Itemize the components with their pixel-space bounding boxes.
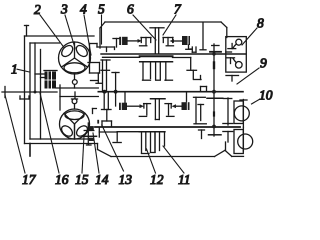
row3 clutch drum bbox=[151, 99, 166, 120]
gear column x214 main bbox=[207, 44, 223, 136]
svg-text:6: 6 bbox=[127, 2, 134, 17]
row1 clutch drum bbox=[150, 28, 164, 53]
lower clutch cluster right of converter bbox=[93, 92, 112, 124]
svg-text:11: 11 bbox=[178, 172, 191, 187]
lower converter stem bbox=[72, 92, 78, 109]
svg-text:14: 14 bbox=[95, 172, 109, 187]
svg-text:7: 7 bbox=[174, 2, 182, 17]
upper clutch cluster right of converter bbox=[97, 44, 115, 52]
row4 clutch under shaft C bbox=[139, 132, 165, 154]
svg-text:17: 17 bbox=[22, 172, 37, 187]
label 6 bbox=[127, 2, 156, 41]
label 16 bbox=[40, 93, 69, 187]
label 5 bbox=[98, 2, 105, 45]
left housing inner lines bbox=[30, 43, 97, 156]
right housing top bbox=[100, 22, 227, 48]
shaft B centerline bbox=[101, 53, 246, 55]
gear T at 116 bbox=[113, 39, 121, 48]
row3 clutch combs bbox=[139, 104, 174, 117]
shaft wall B bbox=[34, 43, 36, 92]
pump gear (black) bbox=[35, 71, 57, 89]
label 2 bbox=[34, 2, 64, 48]
bearing shell lines around input shaft bbox=[56, 85, 98, 110]
I-gear at 115.6 bbox=[112, 73, 119, 107]
label 13 bbox=[102, 125, 132, 187]
wheel assembly lower bbox=[223, 127, 253, 153]
label 7 bbox=[163, 2, 182, 36]
lower converter output column bbox=[84, 123, 118, 145]
svg-text:16: 16 bbox=[55, 172, 69, 187]
wheel assembly upper bbox=[223, 98, 249, 127]
row1 clutch piston left bbox=[119, 37, 142, 45]
gear T at 201 below shaft C bbox=[199, 130, 205, 139]
torque converter upper bbox=[59, 42, 91, 74]
svg-text:5: 5 bbox=[98, 2, 105, 17]
row3 clutch piston left bbox=[119, 103, 144, 110]
gear post x203 from housing bbox=[200, 23, 206, 50]
label 17 bbox=[5, 95, 37, 187]
small bracket above main line bbox=[201, 87, 207, 92]
svg-text:13: 13 bbox=[119, 172, 133, 187]
gear T below shaft C at 117 bbox=[113, 132, 139, 143]
main centerline bbox=[98, 91, 243, 93]
shaft C centerline bbox=[95, 126, 240, 128]
upper bevel symbol bbox=[228, 39, 242, 48]
input shaft bbox=[2, 87, 57, 100]
label 10 bbox=[252, 88, 273, 105]
label 11 bbox=[163, 146, 191, 187]
left housing outer wall bbox=[25, 26, 98, 144]
bracket under shaft B left bbox=[88, 44, 100, 74]
svg-text:9: 9 bbox=[260, 56, 267, 71]
gear T x193 below B bbox=[187, 70, 201, 79]
label 4 bbox=[80, 2, 91, 56]
svg-text:8: 8 bbox=[257, 16, 264, 31]
right housing bottom bbox=[98, 142, 244, 157]
shaft wall A bbox=[29, 43, 31, 139]
label 9 bbox=[237, 56, 267, 85]
label 3 bbox=[60, 2, 75, 49]
upper converter stem bbox=[72, 74, 77, 88]
svg-text:4: 4 bbox=[80, 2, 87, 17]
svg-text:12: 12 bbox=[150, 172, 164, 187]
svg-text:3: 3 bbox=[60, 2, 68, 17]
lower bevel symbol bbox=[227, 58, 243, 68]
I-gear with T at 196 below main line bbox=[194, 97, 207, 124]
right gear box bbox=[226, 37, 247, 73]
gear below box bbox=[226, 76, 239, 82]
label 15 bbox=[75, 136, 89, 187]
row1 clutch piston right bbox=[170, 36, 192, 49]
label 12 bbox=[147, 149, 164, 187]
housing posts for pistons bbox=[125, 92, 187, 104]
row3 clutch piston right bbox=[172, 102, 190, 110]
turbine link upper bbox=[91, 73, 103, 83]
torque converter lower bbox=[60, 109, 90, 139]
row1 clutch combs bbox=[140, 38, 174, 46]
label 8 bbox=[242, 16, 264, 46]
vertical pair to center bbox=[101, 60, 110, 94]
svg-text:10: 10 bbox=[259, 88, 273, 103]
drum hub line bbox=[103, 56, 140, 58]
gear U at 194 on shaft B bbox=[190, 47, 196, 52]
shaft wall C bbox=[40, 50, 42, 140]
label 1 bbox=[11, 62, 30, 77]
row2 clutch under shaft B bbox=[140, 62, 173, 80]
label 14 bbox=[93, 133, 109, 187]
svg-text:15: 15 bbox=[75, 172, 89, 187]
